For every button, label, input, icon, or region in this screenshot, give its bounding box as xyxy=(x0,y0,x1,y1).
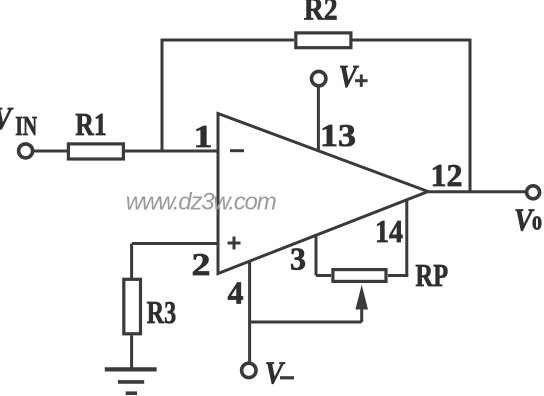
svg-text:IN: IN xyxy=(15,111,37,141)
wire V- node to wiper xyxy=(250,321,362,324)
wire feedback left vertical (node A) xyxy=(161,40,164,151)
svg-text:2: 2 xyxy=(192,246,211,282)
wiper arrow head xyxy=(355,285,368,310)
wire node to R3 xyxy=(130,244,133,280)
svg-text:RP: RP xyxy=(415,257,448,293)
svg-text:13: 13 xyxy=(320,117,356,153)
resistor R2 xyxy=(296,33,351,48)
wire pin 3 vertical xyxy=(315,235,318,276)
ground xyxy=(105,367,157,371)
wire non-inverting input (pin 2) to R3 node xyxy=(132,242,218,245)
wire pin 14 vertical xyxy=(405,200,408,276)
wire pin 14 to RP right xyxy=(388,274,408,277)
wire op-amp output (pin 12) to Vo terminal xyxy=(428,190,525,193)
wire pin 3 to RP left xyxy=(316,274,331,277)
plus of V+ label xyxy=(355,79,368,82)
wire R3 to ground xyxy=(130,336,133,369)
wire pin 4 vertical to V- xyxy=(248,261,251,364)
plus sign non-inverting input xyxy=(228,242,241,245)
wire V+ to pin 13 xyxy=(317,86,320,152)
svg-text:www.dz3w.com: www.dz3w.com xyxy=(126,189,277,216)
wire R1 to inverting input (pin 1) xyxy=(125,150,219,153)
output terminal Vo xyxy=(527,186,540,199)
svg-text:R1: R1 xyxy=(75,106,107,142)
wire feedback right vertical xyxy=(469,40,472,192)
svg-text:3: 3 xyxy=(290,241,306,277)
minus sign inverting input xyxy=(230,149,244,152)
svg-text:1: 1 xyxy=(194,118,213,154)
input terminal Vin xyxy=(19,144,33,158)
potentiometer RP body xyxy=(333,270,386,282)
op-amp U1 triangle xyxy=(218,114,428,274)
wiper arrow stem xyxy=(360,306,363,322)
minus of V- label xyxy=(280,376,294,379)
svg-text:R3: R3 xyxy=(147,294,177,330)
svg-text:V: V xyxy=(339,58,360,94)
svg-text:V: V xyxy=(265,354,286,390)
svg-text:R2: R2 xyxy=(304,0,338,27)
V- terminal xyxy=(242,363,256,377)
wire R2 to top right corner xyxy=(352,39,472,42)
svg-text:0: 0 xyxy=(532,213,542,235)
svg-text:4: 4 xyxy=(228,274,244,310)
V+ terminal xyxy=(312,71,326,85)
resistor R3 xyxy=(124,279,141,334)
svg-text:V: V xyxy=(0,100,14,136)
resistor R1 xyxy=(68,144,123,159)
svg-text:12: 12 xyxy=(431,157,463,193)
wire Vin terminal to R1 xyxy=(33,150,67,153)
wire top left to R2 xyxy=(161,39,295,42)
svg-text:14: 14 xyxy=(375,213,403,249)
